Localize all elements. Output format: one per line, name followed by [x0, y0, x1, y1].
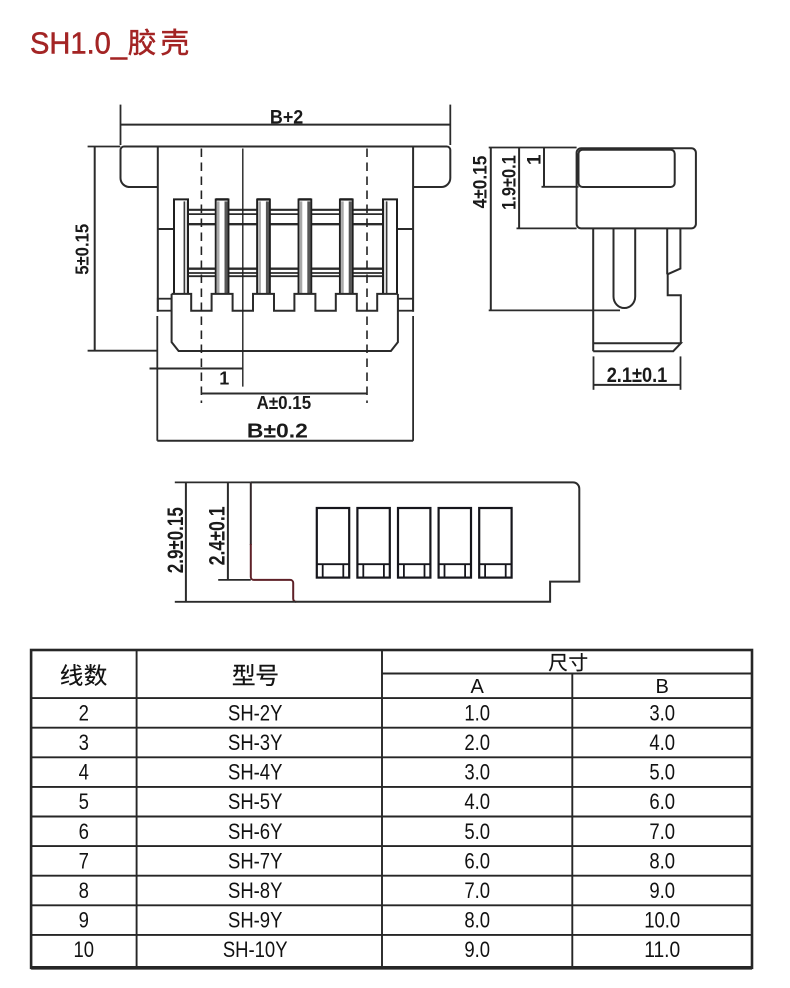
svg-text:SH-4Y: SH-4Y	[228, 760, 283, 785]
spec table A B sub-headers	[471, 676, 669, 698]
svg-text:7.0: 7.0	[464, 878, 490, 903]
dimension 1 side view	[525, 148, 579, 187]
svg-text:B: B	[656, 676, 669, 698]
svg-text:3: 3	[79, 730, 89, 755]
dimension B±0.2 front view	[157, 316, 413, 442]
svg-text:3.0: 3.0	[649, 700, 675, 725]
svg-text:SH-3Y: SH-3Y	[228, 730, 283, 755]
front view left end rib	[174, 199, 188, 294]
svg-text:A: A	[471, 676, 485, 698]
dimension 2.1±0.1 side view	[594, 356, 681, 389]
svg-text:7: 7	[79, 848, 89, 873]
front view outer body outline with flange	[121, 147, 451, 312]
svg-text:SH-9Y: SH-9Y	[228, 908, 283, 933]
front view terminal cavity rails	[188, 210, 383, 276]
svg-text:6: 6	[79, 819, 89, 844]
bottom view terminal slot 5	[479, 508, 511, 578]
front view cavity wall 1 with contact slot	[216, 199, 229, 294]
svg-text:8.0: 8.0	[464, 908, 490, 933]
svg-text:4: 4	[79, 760, 89, 785]
front view centerline pin2 solid	[242, 149, 244, 387]
svg-text:7.0: 7.0	[649, 819, 675, 844]
dimension 4±0.15 side view	[471, 148, 620, 311]
svg-text:SH-8Y: SH-8Y	[228, 878, 283, 903]
svg-text:SH-10Y: SH-10Y	[223, 937, 288, 962]
svg-text:5.0: 5.0	[464, 819, 490, 844]
dimension 2.4±0.1 bottom view	[205, 482, 251, 580]
dimension 1 pitch front view	[150, 368, 243, 388]
svg-text:8: 8	[79, 878, 89, 903]
svg-text:4±0.15: 4±0.15	[471, 155, 492, 208]
spec table grid	[31, 650, 752, 968]
svg-text:10.0: 10.0	[644, 908, 680, 933]
svg-text:B±0.2: B±0.2	[247, 420, 308, 442]
svg-text:1: 1	[219, 368, 229, 388]
bottom view outline left edge	[250, 482, 252, 545]
dimension B+2 top of front view	[121, 105, 451, 145]
svg-text:SH1.0_: SH1.0_	[30, 26, 128, 61]
svg-text:4.0: 4.0	[464, 789, 490, 814]
svg-text:9: 9	[79, 908, 89, 933]
dimension A±0.15 front view	[201, 393, 367, 413]
side view foot bottom with chamfer	[593, 343, 681, 351]
svg-text:1.9±0.1: 1.9±0.1	[500, 155, 521, 210]
svg-text:2: 2	[79, 700, 89, 725]
bottom view outline right part	[251, 482, 580, 601]
svg-text:1.0: 1.0	[464, 700, 490, 725]
bottom view outline left step (dark red)	[251, 544, 296, 602]
dimension 1.9±0.1 side view	[500, 148, 577, 229]
spec table data rows	[74, 700, 681, 962]
svg-text:8.0: 8.0	[649, 848, 675, 873]
bottom view terminal slot 3	[398, 508, 430, 578]
front view castellated bottom teeth	[172, 294, 398, 311]
svg-text:SH-2Y: SH-2Y	[228, 700, 283, 725]
svg-text:11.0: 11.0	[644, 937, 680, 962]
svg-text:5.0: 5.0	[649, 760, 675, 785]
svg-text:B+2: B+2	[270, 107, 303, 128]
svg-text:1: 1	[525, 154, 546, 165]
svg-text:SH-5Y: SH-5Y	[228, 789, 283, 814]
title SH1.0_jiaoke	[30, 26, 188, 61]
svg-text:6.0: 6.0	[649, 789, 675, 814]
bottom view terminal slot 2	[357, 508, 389, 578]
svg-text:3.0: 3.0	[464, 760, 490, 785]
front view centerline pin5 dashed	[366, 149, 368, 404]
front view base plate with chamfers	[172, 294, 398, 351]
svg-text:5±0.15: 5±0.15	[73, 224, 93, 275]
svg-text:2.4±0.1: 2.4±0.1	[205, 506, 230, 565]
svg-text:9.0: 9.0	[464, 937, 490, 962]
front view right end rib	[383, 199, 397, 294]
svg-text:A±0.15: A±0.15	[257, 393, 312, 413]
side view latch arm with barb	[667, 228, 681, 343]
svg-text:10: 10	[74, 937, 95, 962]
bottom view terminal slot 4	[439, 508, 471, 578]
front view centerline pin1 dashed	[200, 149, 202, 404]
front view cavity wall 3 with contact slot	[299, 199, 312, 294]
svg-text:6.0: 6.0	[464, 848, 490, 873]
bottom view terminal slot 1	[317, 508, 349, 578]
svg-text:SH-7Y: SH-7Y	[228, 848, 283, 873]
svg-text:2.9±0.15: 2.9±0.15	[163, 507, 188, 573]
front view cavity wall 2 with contact slot	[257, 199, 270, 294]
svg-text:SH-6Y: SH-6Y	[228, 819, 283, 844]
side view upper block with mating cavity	[577, 148, 696, 228]
svg-text:9.0: 9.0	[649, 878, 675, 903]
dimension 2.9±0.15 bottom view	[163, 482, 296, 601]
svg-text:5: 5	[79, 789, 89, 814]
front view cavity wall 4 with contact slot	[340, 199, 353, 294]
dimension 5±0.15 left of front view	[73, 147, 158, 351]
svg-text:2.0: 2.0	[464, 730, 490, 755]
front view left ear	[158, 299, 172, 311]
spec table CJK headers	[61, 653, 587, 686]
side view left leg with U slot	[593, 228, 635, 351]
svg-text:2.1±0.1: 2.1±0.1	[607, 364, 668, 387]
svg-text:4.0: 4.0	[649, 730, 675, 755]
front view right ear	[398, 299, 413, 311]
